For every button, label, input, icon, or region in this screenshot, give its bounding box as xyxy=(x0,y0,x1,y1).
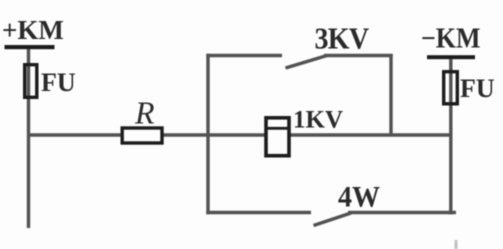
svg-text:3KV: 3KV xyxy=(315,22,369,55)
terminal bar +KM xyxy=(5,45,55,49)
fuse FU (right) xyxy=(444,72,458,104)
svg-text:−KM: −KM xyxy=(421,23,481,54)
fuse FU (left) xyxy=(25,65,37,98)
wire: -KM vertical bus xyxy=(449,59,452,214)
wire: bottom branch left segment xyxy=(206,211,311,214)
contact 3KV (normally open, movable blade) xyxy=(286,56,328,69)
wire: faded stub below -KM bus xyxy=(455,240,458,249)
wire: top branch right drop xyxy=(389,54,392,137)
wire: left branch vertical xyxy=(206,54,209,214)
svg-text:+KM: +KM xyxy=(2,15,64,45)
svg-text:R: R xyxy=(134,95,155,131)
wire: +KM vertical drop xyxy=(27,49,30,228)
wire: top branch right segment xyxy=(324,54,393,57)
relay coil 1KV xyxy=(266,118,289,156)
wire: top branch left segment xyxy=(206,54,282,57)
svg-text:FU: FU xyxy=(41,68,76,97)
svg-text:4W: 4W xyxy=(338,181,380,214)
wire: main horizontal bus xyxy=(27,133,452,136)
svg-text:FU: FU xyxy=(460,74,495,103)
wire: bottom branch right segment xyxy=(348,211,456,214)
resistor R xyxy=(122,128,162,143)
svg-text:1KV: 1KV xyxy=(293,107,343,134)
terminal bar -KM xyxy=(427,55,475,59)
contact 4W (normally open, movable blade) xyxy=(314,213,352,226)
